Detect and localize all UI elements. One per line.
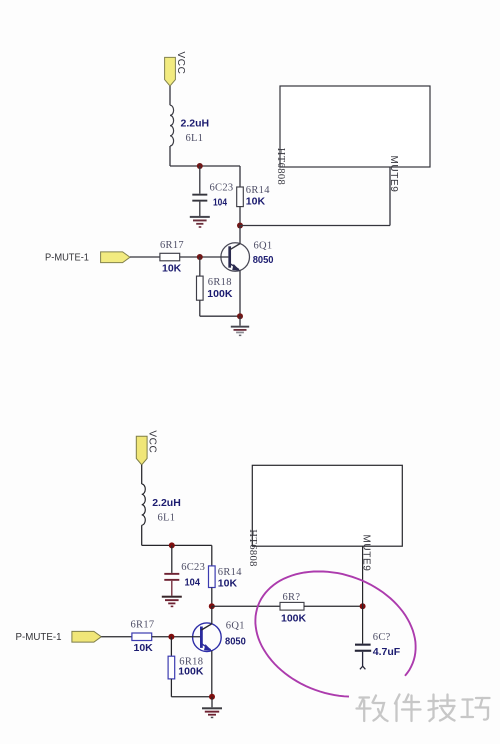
capacitor 6C23 (bottom) — [164, 545, 179, 595]
inductor 6L1 — [170, 105, 174, 146]
pin MUTE 9 (bottom) — [362, 546, 364, 606]
value label 2.2uH (bottom) — [152, 497, 181, 509]
label 6R14 — [246, 185, 270, 196]
inductor 6L1 (bottom) — [142, 484, 146, 525]
value label 100K (bottom 6R18) — [178, 665, 204, 677]
svg-text:HT6808: HT6808 — [247, 529, 258, 566]
svg-text:10K: 10K — [134, 642, 154, 654]
net label VCC (bottom) — [147, 430, 158, 453]
value label 104 (bottom) — [185, 577, 201, 589]
wire collector to MUTE pin — [240, 225, 390, 227]
svg-text:6Q1: 6Q1 — [254, 240, 273, 251]
capacitor 6C23 — [192, 166, 207, 216]
junction node cap (bottom) — [360, 603, 366, 609]
pin label MUTE9 — [388, 156, 399, 193]
label 6R14 (bottom) — [218, 567, 242, 578]
svg-text:10K: 10K — [218, 577, 238, 589]
junction node emitter — [237, 313, 243, 319]
svg-text:MUTE9: MUTE9 — [388, 156, 399, 193]
svg-text:6R17: 6R17 — [160, 240, 184, 251]
label 6R17 — [160, 240, 184, 251]
svg-text:6R14: 6R14 — [218, 567, 242, 578]
svg-text:2.2uH: 2.2uH — [181, 117, 210, 129]
value label 8050 — [253, 254, 274, 266]
svg-text:8050: 8050 — [253, 254, 274, 266]
resistor 6R18 (bottom) — [168, 637, 175, 697]
svg-text:100K: 100K — [207, 288, 233, 300]
wire terminal to 6R17 (bottom) — [101, 636, 132, 638]
terminal P-MUTE-1 (bottom) — [72, 631, 101, 642]
junction node emitter (bottom) — [209, 694, 215, 700]
transistor 6Q1 — [221, 226, 250, 317]
svg-text:8050: 8050 — [225, 636, 246, 648]
wire 6R18 to emitter — [200, 315, 240, 317]
wire 6R17 to base (bottom) — [152, 636, 200, 638]
svg-text:6R18: 6R18 — [208, 277, 232, 288]
svg-text:P-MUTE-1: P-MUTE-1 — [16, 632, 62, 643]
terminal P-MUTE-1 — [101, 252, 130, 263]
wire terminal to 6R17 — [130, 256, 160, 258]
wire rail to 6R14 — [170, 165, 240, 167]
ground below 6C23 (bottom) — [162, 596, 182, 607]
capacitor 6C? — [355, 606, 371, 669]
svg-text:104: 104 — [213, 197, 227, 209]
junction node — [197, 163, 203, 169]
wire rail (bottom) — [142, 544, 212, 546]
wire collector to 6R? — [212, 605, 280, 607]
watermark character 技 — [429, 695, 455, 722]
IC HT6808 body — [280, 86, 430, 167]
watermark character 件 — [395, 695, 421, 722]
value label 8050 (bottom) — [225, 636, 246, 648]
net label VCC — [175, 52, 186, 75]
wire 6R? to cap node — [304, 605, 363, 607]
wire inductor to rail (bottom) — [141, 525, 143, 545]
svg-text:HT6808: HT6808 — [275, 148, 286, 185]
junction node (bottom rail) — [169, 542, 175, 548]
net label P-MUTE-1 — [45, 253, 89, 264]
svg-text:6L1: 6L1 — [158, 512, 176, 523]
value label 104 — [213, 197, 227, 209]
svg-text:4.7uF: 4.7uF — [373, 646, 401, 658]
svg-text:2.2uH: 2.2uH — [152, 497, 181, 509]
annotation ellipse — [255, 571, 415, 696]
svg-text:6C?: 6C? — [373, 632, 391, 643]
watermark character 巧 — [462, 698, 490, 720]
pin MUTE 9 — [389, 167, 391, 226]
value label 10K — [162, 262, 182, 274]
label 6C23 — [210, 183, 234, 194]
value label 100K (6R?) — [281, 612, 307, 624]
wire VCC to inductor (bottom) — [141, 465, 143, 484]
svg-text:100K: 100K — [281, 612, 307, 624]
svg-text:VCC: VCC — [175, 52, 186, 75]
svg-text:6L1: 6L1 — [186, 133, 204, 144]
wire VCC to inductor — [169, 86, 171, 105]
resistor 6R14 (bottom) — [209, 545, 216, 606]
junction node base — [197, 254, 203, 260]
value label 10K (bottom 6R17) — [134, 642, 154, 654]
value label 10K (bottom) — [218, 577, 238, 589]
svg-text:10K: 10K — [162, 262, 182, 274]
label 6Q1 (bottom) — [226, 621, 245, 632]
ground below 6C23 — [190, 216, 210, 228]
svg-text:MUTE9: MUTE9 — [361, 535, 372, 572]
IC HT6808 body (bottom) — [252, 465, 402, 546]
svg-text:6C23: 6C23 — [181, 562, 205, 573]
pin label MUTE9 (bottom) — [361, 535, 372, 572]
value label 2.2uH — [181, 117, 210, 129]
label 6R17 (bottom) — [131, 619, 155, 630]
label 6R18 — [208, 277, 232, 288]
ground below emitter — [231, 316, 249, 336]
net label P-MUTE-1 (bottom) — [16, 632, 62, 643]
resistor 6R14 — [237, 166, 244, 226]
svg-text:6Q1: 6Q1 — [226, 621, 245, 632]
resistor 6R18 — [197, 257, 204, 316]
svg-text:6R17: 6R17 — [131, 619, 155, 630]
label 6R? — [283, 592, 301, 603]
label 6L1 (bottom) — [158, 512, 176, 523]
wire 6R17 to base — [180, 256, 229, 258]
junction node collector rail — [237, 223, 243, 229]
label 6L1 — [186, 133, 204, 144]
svg-text:104: 104 — [185, 577, 201, 589]
label HT6808 (bottom) — [247, 529, 258, 566]
value label 4.7uF — [373, 646, 401, 658]
value label 100K — [207, 288, 233, 300]
label 6R18 (bottom) — [179, 656, 203, 667]
resistor 6R? — [280, 602, 304, 610]
power terminal VCC — [165, 57, 176, 86]
resistor 6R17 — [160, 253, 180, 260]
wire inductor to rail — [169, 146, 171, 166]
svg-text:6C23: 6C23 — [210, 183, 234, 194]
svg-text:100K: 100K — [178, 665, 204, 677]
svg-text:P-MUTE-1: P-MUTE-1 — [45, 253, 89, 264]
ground below emitter (bottom) — [202, 697, 222, 718]
power terminal VCC (bottom) — [136, 436, 147, 465]
junction node base (bottom) — [168, 634, 174, 640]
value label 10K — [246, 195, 266, 207]
resistor 6R17 (bottom) — [132, 633, 152, 641]
label HT6808 — [275, 148, 286, 185]
label 6C23 (bottom) — [181, 562, 205, 573]
label 6Q1 — [254, 240, 273, 251]
junction node collector (bottom) — [209, 603, 215, 609]
transistor 6Q1 (bottom) — [193, 606, 222, 697]
wire 6R18 to emitter (bottom) — [171, 696, 212, 698]
svg-text:6R?: 6R? — [283, 592, 301, 603]
svg-text:10K: 10K — [246, 195, 266, 207]
label 6C? — [373, 632, 391, 643]
svg-text:VCC: VCC — [147, 430, 158, 453]
watermark character 软 — [357, 696, 388, 722]
